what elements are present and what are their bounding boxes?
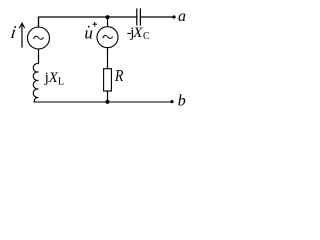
voltage source U circle: [97, 27, 118, 48]
current arrow shaft for i: [21, 25, 23, 48]
wire capacitor to terminal a: [140, 16, 173, 18]
wire junction to voltage source: [107, 17, 109, 27]
current arrow head: [20, 23, 25, 27]
node b dot: [170, 100, 173, 103]
wire bottom rail: [34, 101, 172, 103]
dot above u: [88, 26, 90, 28]
svg-text:R: R: [114, 67, 124, 85]
wire voltage source to resistor: [107, 48, 109, 69]
svg-text:b: b: [178, 92, 186, 109]
inductor jXL coil: [33, 63, 38, 102]
capacitor -jXC plate right: [139, 9, 141, 25]
resistor R body: [104, 69, 112, 91]
wire top rail left segment: [39, 17, 137, 27]
node junction bottom: [105, 100, 109, 104]
wire current source to inductor: [38, 49, 40, 64]
plus sign of voltage source: [93, 23, 97, 25]
node a dot: [172, 15, 175, 18]
voltage source sine symbol: [103, 35, 113, 38]
svg-text:a: a: [178, 8, 186, 25]
capacitor -jXC plate left: [136, 9, 138, 25]
current source sine symbol: [34, 36, 44, 39]
wire resistor to bottom rail: [107, 91, 109, 102]
current source I circle: [28, 27, 50, 49]
node junction top: [105, 15, 109, 19]
